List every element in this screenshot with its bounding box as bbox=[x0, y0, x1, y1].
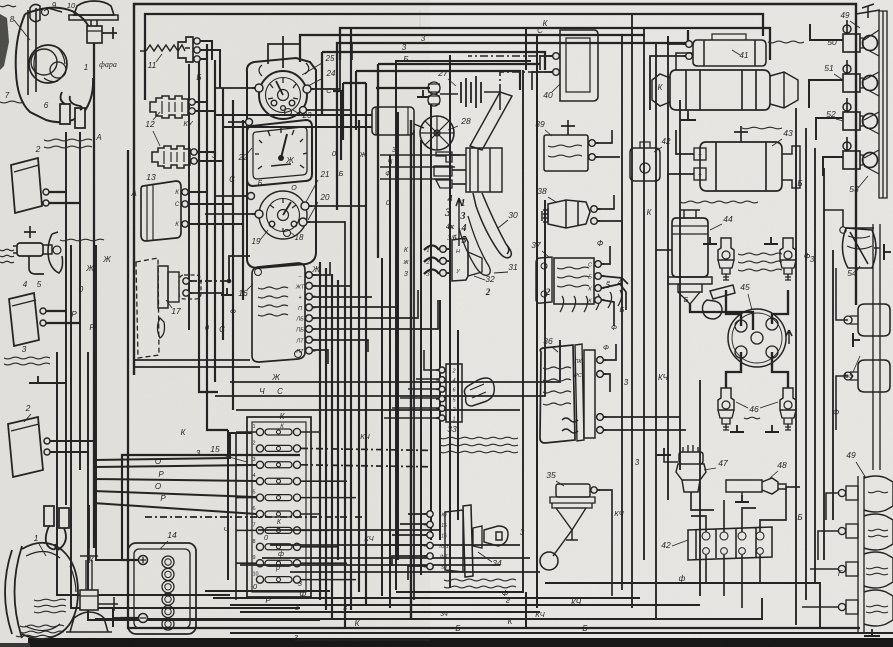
switch 4 body bbox=[17, 243, 43, 256]
wire b13 b bbox=[188, 203, 233, 205]
wire harness centre2 8 bbox=[439, 300, 441, 540]
wire tl1 bbox=[826, 493, 838, 520]
starter solenoid 41 bbox=[693, 40, 766, 66]
wire p17 b bbox=[190, 292, 222, 294]
wire sender12a b bbox=[195, 110, 215, 112]
wire to capacitor 27 bbox=[376, 87, 430, 89]
leader 2b bbox=[24, 414, 31, 422]
sender 12a terminal a bbox=[189, 99, 198, 105]
wire pair a bbox=[134, 359, 250, 361]
battery 14 cell cap 3 bbox=[162, 581, 174, 593]
wire cluster feed 6 bbox=[242, 120, 244, 300]
note zvukovogo signala bbox=[4, 357, 50, 365]
wire f40 b bbox=[532, 72, 552, 90]
gauge 21 terminal a bbox=[301, 202, 312, 210]
wire b42 b1 bbox=[705, 555, 707, 583]
leader 52 bbox=[836, 119, 843, 121]
switch 32 pentagon bbox=[468, 252, 482, 276]
wire s33 2 bbox=[416, 378, 439, 380]
filter 40 plate bbox=[560, 30, 598, 101]
leader 35 bbox=[556, 481, 564, 486]
regulator 36 side plate bbox=[575, 344, 584, 441]
relay 42t body bbox=[630, 148, 660, 181]
cluster terminal l2 bbox=[243, 119, 253, 126]
note signala bbox=[0, 249, 14, 263]
wire heater a bbox=[215, 114, 372, 116]
tail lamp 49 unit3 bbox=[838, 552, 893, 588]
wire b37 a bbox=[602, 246, 610, 264]
wire plug11 a bbox=[200, 41, 212, 60]
leader 37 bbox=[542, 251, 550, 258]
wire sender12b b bbox=[197, 160, 223, 162]
wire heater b bbox=[223, 126, 372, 128]
wire b42 b4 bbox=[759, 555, 761, 583]
wire s33 1 bbox=[424, 350, 439, 370]
note katushka 44 bbox=[680, 201, 758, 203]
lamp 53 unit bbox=[843, 142, 878, 169]
wire harness centre 8 bbox=[365, 150, 367, 604]
headlamp pigtail wires bbox=[61, 92, 82, 110]
battery 14 cell cap 6 bbox=[162, 618, 174, 630]
leader 53 bbox=[858, 176, 868, 188]
headlamp 1b sleeves bbox=[44, 506, 54, 526]
regulator 36 terminal LK bbox=[597, 357, 607, 364]
wire tl3 bbox=[810, 568, 838, 570]
note rele ukazatelei 16 bbox=[258, 287, 288, 316]
wire pump out bbox=[598, 490, 612, 596]
speedometer hub bbox=[279, 156, 284, 161]
distributor tower bbox=[735, 320, 747, 332]
wire fb o bbox=[258, 529, 440, 531]
speedometer 22 needle bbox=[281, 134, 287, 158]
battery 14 cell cap 2 bbox=[162, 568, 174, 580]
block 16 terminal П bbox=[306, 304, 316, 311]
wire relay2b out b bbox=[50, 452, 88, 465]
block 37 terminal С bbox=[595, 261, 605, 268]
wire cluster feed 5 bbox=[232, 100, 234, 410]
strip 33 terminal 1 bbox=[436, 415, 445, 421]
bracket 37 hole b bbox=[541, 291, 547, 297]
strip 33 terminal 2 bbox=[436, 367, 445, 373]
leader 31 bbox=[494, 272, 508, 273]
note lamp3 bbox=[866, 567, 888, 575]
battery 14 cell cap 1 bbox=[162, 556, 174, 568]
wire harness centre 1 bbox=[319, 262, 321, 600]
wire harness centre 4 bbox=[337, 280, 339, 560]
block 42 bottom post 3 bbox=[739, 548, 746, 555]
fuse terminal 1 bbox=[440, 246, 450, 253]
wire P line 1 bbox=[93, 479, 256, 481]
lamp rail 49 top bbox=[856, 4, 880, 18]
starter nose bbox=[770, 72, 798, 108]
wire parking lamp circuit bbox=[93, 43, 95, 548]
wire B bus drop bbox=[377, 64, 379, 258]
bolt on 4 bbox=[24, 226, 36, 238]
column switch 30 stack bbox=[466, 148, 502, 192]
wire b42 b2 bbox=[723, 555, 725, 596]
leader 21 bbox=[306, 180, 318, 202]
wire left bus 4 bbox=[96, 245, 128, 560]
wire 48 gnd bbox=[741, 492, 743, 496]
wire cluster feed 3 bbox=[214, 60, 216, 382]
solenoid terminal a bbox=[683, 41, 693, 48]
wire harness centre2 3 bbox=[397, 112, 399, 560]
wire reg c bbox=[604, 416, 680, 418]
gauge 54 body bbox=[842, 228, 876, 268]
wire harness centre2 10 bbox=[457, 330, 459, 520]
wire harness centre2 7 bbox=[430, 104, 432, 540]
wire rc bus 3 upper bbox=[643, 28, 645, 60]
wire lamp50 pilot bbox=[846, 20, 848, 34]
wire rc bus 2 bbox=[631, 170, 633, 608]
wire headlamp feed left bbox=[65, 132, 67, 505]
wire fb f bbox=[270, 544, 520, 546]
generator 43 body bbox=[700, 142, 782, 191]
wire b13 a bbox=[188, 191, 207, 193]
switch 34 terminal 16 bbox=[424, 532, 433, 538]
wire b42 t2 bbox=[723, 500, 725, 532]
wire fuse out r5 bbox=[301, 497, 356, 499]
wire h f bbox=[380, 178, 450, 180]
leader 1b bbox=[39, 544, 46, 556]
switch 34 terminal Ю/1 bbox=[424, 542, 433, 548]
wire cab interior boundary bbox=[396, 61, 531, 590]
leader 16 bbox=[247, 284, 253, 290]
switch 34 body bbox=[445, 510, 463, 572]
wire left bus 3 bbox=[88, 352, 320, 620]
leader 15 bbox=[222, 455, 247, 462]
note tormoz fonar bbox=[34, 599, 66, 613]
leader 11 bbox=[156, 54, 162, 62]
wire gauge20 right bbox=[307, 222, 345, 312]
note krishka bbox=[0, 101, 24, 103]
headlamp 1b lens bbox=[5, 546, 22, 638]
speedometer 22 arc ticks bbox=[255, 128, 307, 169]
gauge 23 mounting ears bbox=[259, 63, 309, 76]
hand arrow bbox=[456, 198, 462, 246]
distributor tower bbox=[766, 346, 778, 358]
plug 11 terminal b bbox=[194, 47, 203, 53]
leader 12b bbox=[153, 131, 160, 146]
wire b16 t7 bbox=[313, 340, 368, 352]
wire right bus 3 bbox=[814, 148, 816, 583]
distributor 45 cap bbox=[728, 309, 786, 367]
sender 12b terminal a bbox=[191, 149, 200, 155]
gauge 23 needle bbox=[276, 81, 283, 95]
tail lamp 49 unit4 bbox=[838, 590, 893, 626]
clip 5 bracket bbox=[48, 232, 63, 273]
wire left bus 2 bbox=[71, 245, 300, 608]
mounting bracket 8 bbox=[28, 8, 36, 95]
wire bus y71 drop bbox=[355, 71, 357, 130]
wire 54 gnd bbox=[874, 247, 880, 249]
sender 47 body bbox=[676, 452, 706, 492]
strip 33 terminal 4 bbox=[436, 377, 445, 383]
leader 18 bbox=[290, 232, 295, 236]
note raspredelitel 45 bbox=[738, 253, 782, 271]
note top-left bbox=[0, 5, 16, 7]
wire sender12b a bbox=[197, 151, 215, 153]
ground plug 5 bbox=[703, 237, 717, 244]
wire gauge23 right bbox=[307, 109, 352, 111]
wire left bus 1 bbox=[57, 352, 230, 595]
parking lamp b cross bbox=[98, 597, 118, 611]
filter 40 terminal b bbox=[550, 69, 560, 76]
generator terminals bbox=[694, 148, 706, 160]
wire centre bus 2 bbox=[536, 35, 538, 608]
wire 40 dashdot a bbox=[468, 55, 552, 57]
wire starter gnd bbox=[687, 110, 689, 113]
junction p17 bbox=[227, 279, 231, 283]
relay 2b terminal a bbox=[44, 438, 53, 444]
wire 55a feed bbox=[836, 268, 848, 320]
sender 12a terminal b bbox=[189, 108, 198, 114]
strip 33 terminal 2 bbox=[436, 405, 445, 411]
ground 48 bbox=[735, 495, 749, 502]
horn 3 terminal b bbox=[40, 320, 49, 326]
gauge 23 post b bbox=[289, 100, 295, 106]
gauge 19 ticks bbox=[270, 198, 296, 232]
wire ammeter left to bus bbox=[216, 87, 255, 89]
wire O line 2 bbox=[93, 491, 256, 497]
wire rc bus 3 bbox=[643, 60, 645, 560]
wire b42 t1 bbox=[691, 516, 706, 532]
wire harness centre2 6 bbox=[420, 140, 422, 575]
wire b16 t8 bbox=[313, 350, 328, 364]
parking lamp 10 stem bbox=[91, 20, 97, 26]
wire harness centre2 1 bbox=[381, 258, 383, 596]
relay 2 terminal a bbox=[43, 189, 52, 195]
wire KCh bottom bus bbox=[95, 598, 762, 619]
ground plug 2 bbox=[730, 425, 744, 432]
ground 54 bbox=[884, 244, 891, 260]
plug 11 terminal a bbox=[194, 38, 203, 44]
HT lead to plug 1 bbox=[772, 352, 788, 388]
wire fuse out r1 bbox=[301, 431, 320, 433]
wire b13 c bbox=[188, 223, 243, 225]
plug 17 terminal a bbox=[183, 278, 192, 284]
lamp 50 headlamp beam bbox=[843, 25, 878, 52]
headlamp connector sleeve b bbox=[75, 108, 85, 128]
block 37 terminal Б bbox=[595, 273, 605, 280]
note lamp1 bbox=[868, 491, 888, 493]
sender 12b body bbox=[152, 146, 190, 168]
wire battery plus cable bbox=[122, 455, 300, 560]
relay 2 terminal b bbox=[43, 200, 52, 206]
strip 33 terminal 6 bbox=[436, 386, 445, 392]
gauge 23 terminal lower bbox=[300, 107, 310, 114]
wire short y83 drop l bbox=[342, 83, 344, 140]
spark plug 46 cyl2 bbox=[718, 388, 734, 430]
wire centre bus 3 bbox=[544, 200, 546, 330]
wire relay2b out a bbox=[50, 440, 96, 442]
wire b42 b3 bbox=[741, 555, 743, 608]
wire fb extra bbox=[240, 564, 500, 566]
strip 33 body bbox=[446, 364, 462, 422]
note rele 39 bbox=[548, 145, 582, 157]
wire 47 gnd bbox=[664, 455, 678, 462]
block 42 bottom post 2 bbox=[721, 548, 728, 555]
switch 34 terminal INT bbox=[424, 553, 433, 559]
heater motor shaft bbox=[414, 124, 424, 128]
wire reg d bbox=[604, 429, 686, 431]
wire cluster top feed a bbox=[282, 36, 284, 68]
relay 39 box bbox=[544, 135, 588, 171]
ground 47 bbox=[657, 448, 671, 455]
gauge 54 terminal bbox=[840, 227, 846, 233]
wire relay2 out a bbox=[49, 191, 66, 193]
wire parking lamp b feed bbox=[88, 505, 90, 548]
leader 47 bbox=[704, 468, 716, 470]
parking lamp b stem bbox=[86, 560, 92, 590]
switch 34 terminal 15 bbox=[424, 521, 433, 527]
wire C gauge link bbox=[333, 91, 341, 160]
pump 35 flange bbox=[550, 497, 595, 508]
gauge 23 inner ring bbox=[266, 78, 301, 113]
wire sw34 1 bbox=[408, 513, 427, 515]
lamp 51 bbox=[843, 65, 878, 92]
wire P line 2 bbox=[93, 503, 256, 514]
wire solenoid to starter bbox=[676, 53, 693, 70]
distributor tower bbox=[766, 318, 778, 330]
leader 20 bbox=[308, 202, 318, 220]
fuse 15 unit 3 bbox=[253, 457, 301, 469]
wire 3 bus 2 bbox=[322, 52, 545, 70]
note vklyuchatel sveta 33 bbox=[440, 437, 518, 453]
leader 22 bbox=[246, 148, 252, 155]
wire harness centre 7 bbox=[358, 120, 360, 592]
block 16 screw bottom bbox=[295, 351, 302, 358]
wire fuse out r3 dashdot bbox=[301, 465, 430, 467]
wire gen field bbox=[668, 174, 694, 200]
block 13 terminal K bbox=[182, 189, 191, 195]
switch 4 connector bbox=[53, 246, 61, 254]
wire pair b bbox=[134, 366, 260, 368]
wire centre bus 1 upper bbox=[525, 28, 527, 70]
regulator 36 terminal t2 bbox=[597, 427, 607, 434]
spark plug 46 cyl3 bbox=[780, 238, 796, 280]
wire tl2 bbox=[818, 531, 838, 560]
bracket 37 hole a bbox=[541, 263, 547, 269]
wire cab interior boundary right bbox=[396, 70, 523, 592]
lamp 55 rail bbox=[873, 224, 880, 470]
wire fb k dashdot bbox=[145, 516, 362, 518]
block 42 top post 2 bbox=[720, 532, 728, 540]
leader 8 bbox=[14, 20, 30, 40]
leader 24 bbox=[308, 78, 323, 86]
switch 34 terminal 50 bbox=[424, 563, 433, 569]
wire Ch vertical lower bbox=[227, 430, 229, 580]
gauge 23 lamp socket bbox=[285, 109, 292, 116]
wire speedo left b bbox=[216, 195, 247, 197]
lamp 55a bbox=[844, 304, 890, 336]
leader 48 bbox=[770, 471, 778, 478]
wire lamp51 pilot bbox=[846, 60, 848, 74]
wire rc bus 1 bbox=[621, 150, 623, 590]
wire speedo left a bbox=[228, 121, 245, 123]
wire 3 bus 2 drop bbox=[321, 52, 323, 115]
leader 49b bbox=[856, 462, 866, 478]
wire lamp53 pilot bbox=[846, 137, 848, 151]
ground 55 bbox=[853, 333, 860, 347]
strip 33 terminal 5 bbox=[436, 396, 445, 402]
wire sw34 5 bbox=[392, 556, 427, 566]
wire gauge19 left bbox=[205, 213, 255, 215]
vacuum advance 45 bbox=[703, 285, 736, 319]
wire fuse out r2 dashdot bbox=[301, 448, 430, 450]
spark plug 46 cyl5 bbox=[718, 238, 734, 280]
panel 17 hook bbox=[158, 318, 165, 338]
scan edge bar bbox=[28, 638, 893, 647]
fuse 15 unit 1 bbox=[253, 424, 301, 436]
parking lamp 10 dome bbox=[74, 1, 114, 15]
wire cluster top feed b bbox=[268, 44, 300, 64]
speedometer 22 dial bbox=[253, 127, 307, 179]
headlamp 1b pigtails bbox=[46, 526, 66, 550]
leader 32 bbox=[474, 276, 485, 280]
wire b16 t4 bbox=[313, 265, 398, 307]
note ukaz povorota bbox=[44, 139, 92, 148]
wire 3 to fuse 1 bbox=[95, 433, 252, 460]
leader 14 bbox=[160, 541, 168, 549]
relay 39 terminal a bbox=[589, 140, 599, 147]
horn button 33 bbox=[464, 378, 494, 406]
leader 27 bbox=[448, 79, 456, 86]
wire h ch bbox=[380, 166, 455, 168]
wire C feed bbox=[215, 200, 545, 396]
wire lamp52 pilot bbox=[846, 98, 848, 112]
gauge 23 ticks bbox=[268, 78, 298, 99]
tail lamp 49 unit1 bbox=[838, 476, 893, 512]
wire b42 t3 bbox=[742, 508, 756, 532]
wire s33 5 bbox=[392, 407, 439, 409]
wire lamp51 feed bbox=[809, 80, 843, 108]
leader 17 bbox=[166, 300, 172, 308]
gauge 20 terminal b bbox=[299, 218, 310, 226]
wire battery minus cable bbox=[120, 617, 138, 619]
HT lead to plug 3 bbox=[772, 290, 788, 324]
wire cap 27 bbox=[440, 93, 458, 95]
wire bus y71 bbox=[356, 71, 520, 90]
wire jog a bbox=[351, 44, 353, 60]
ground battery bbox=[113, 609, 120, 627]
battery cell inner 3 bbox=[165, 584, 171, 590]
gauge 19 post a bbox=[269, 221, 275, 227]
steering column 29 bbox=[470, 92, 512, 150]
leader 42 bbox=[672, 540, 688, 546]
wire right bus 1 bbox=[795, 108, 797, 625]
wire cluster feed 2 bbox=[207, 44, 228, 430]
wire 55b feed bbox=[836, 376, 848, 430]
block 37 body bbox=[554, 258, 594, 304]
wire K bus top bbox=[340, 28, 770, 60]
plug 17 housing bbox=[168, 272, 179, 302]
note bios 37 bbox=[557, 267, 589, 287]
wire b37 c bbox=[602, 284, 626, 310]
wire b37 b bbox=[602, 276, 628, 284]
fuse 15 unit 10 bbox=[253, 572, 301, 584]
regulator 36 terminal RS bbox=[597, 371, 607, 378]
wire F right bottom bbox=[545, 583, 820, 628]
gauge 23 terminal left bbox=[252, 84, 263, 92]
fuse terminal 3 bbox=[440, 270, 450, 277]
wire fuse out r10 bbox=[301, 579, 356, 581]
wire b16 t2 bbox=[313, 285, 352, 287]
leader 42t bbox=[654, 147, 662, 152]
wire sw34 2 bbox=[400, 523, 427, 525]
speedometer 22 odometer bbox=[271, 164, 291, 166]
wire fuse out r7 bbox=[301, 529, 329, 531]
